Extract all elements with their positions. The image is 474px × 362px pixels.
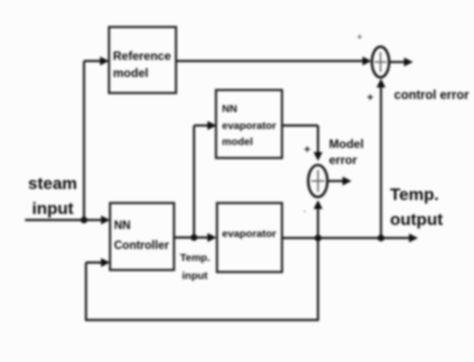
svg-text:error: error [329,153,357,167]
svg-text:Temp.: Temp. [180,252,210,264]
summing junction S2 (model error) [308,165,327,197]
block NN Controller [110,203,174,270]
svg-text:model: model [113,66,148,80]
wire steam branch up [83,61,85,220]
svg-text:+: + [304,144,310,156]
label steam input [28,174,77,218]
summing junction S1 (control error) [372,47,389,78]
svg-text:model: model [222,136,253,148]
svg-text:Temp.: Temp. [390,185,439,204]
wire S2 output (model error arrow) [328,177,352,186]
svg-text:input: input [182,270,208,282]
node steam branch [81,217,88,224]
svg-text:+: + [367,92,373,104]
node temp input branch [191,234,198,241]
node temp output branch [378,235,385,242]
svg-text:·: · [303,206,306,217]
wire NN evaporator model to S2 [282,126,323,162]
block NN evaporator model [216,90,282,158]
svg-text:+: + [357,32,362,42]
svg-text:Model: Model [329,137,364,151]
label Temp. output [390,185,443,229]
svg-text:evaporator: evaporator [222,120,276,132]
wire branch up to NN evaporator model [194,121,217,238]
svg-text:Reference: Reference [113,49,171,63]
block evaporator [217,203,282,272]
wire steam input to NN Controller [25,216,110,225]
wire feedback to NN Controller second input [86,238,319,321]
svg-text:evaporator: evaporator [222,228,276,240]
wire NN Controller to evaporator [174,233,217,242]
svg-text:Controller: Controller [114,240,169,252]
wire up into S2 bottom [314,200,323,238]
wire S1 output (control error arrow) [390,58,414,67]
svg-text:control error: control error [394,88,469,102]
node evap output to S2 [315,235,322,242]
wire Reference model to S1 [176,57,372,66]
svg-text:steam: steam [28,174,77,193]
label Temp. input [180,252,210,282]
svg-text:input: input [32,199,74,218]
block Reference model [109,27,176,93]
svg-text:NN: NN [222,103,237,115]
wire evaporator output line [282,234,418,243]
svg-text:NN: NN [114,220,131,232]
wire into Reference model [84,57,109,66]
label Model error [329,137,364,167]
svg-text:output: output [390,210,443,229]
wire feedback Temp output up to S1 [377,79,386,239]
